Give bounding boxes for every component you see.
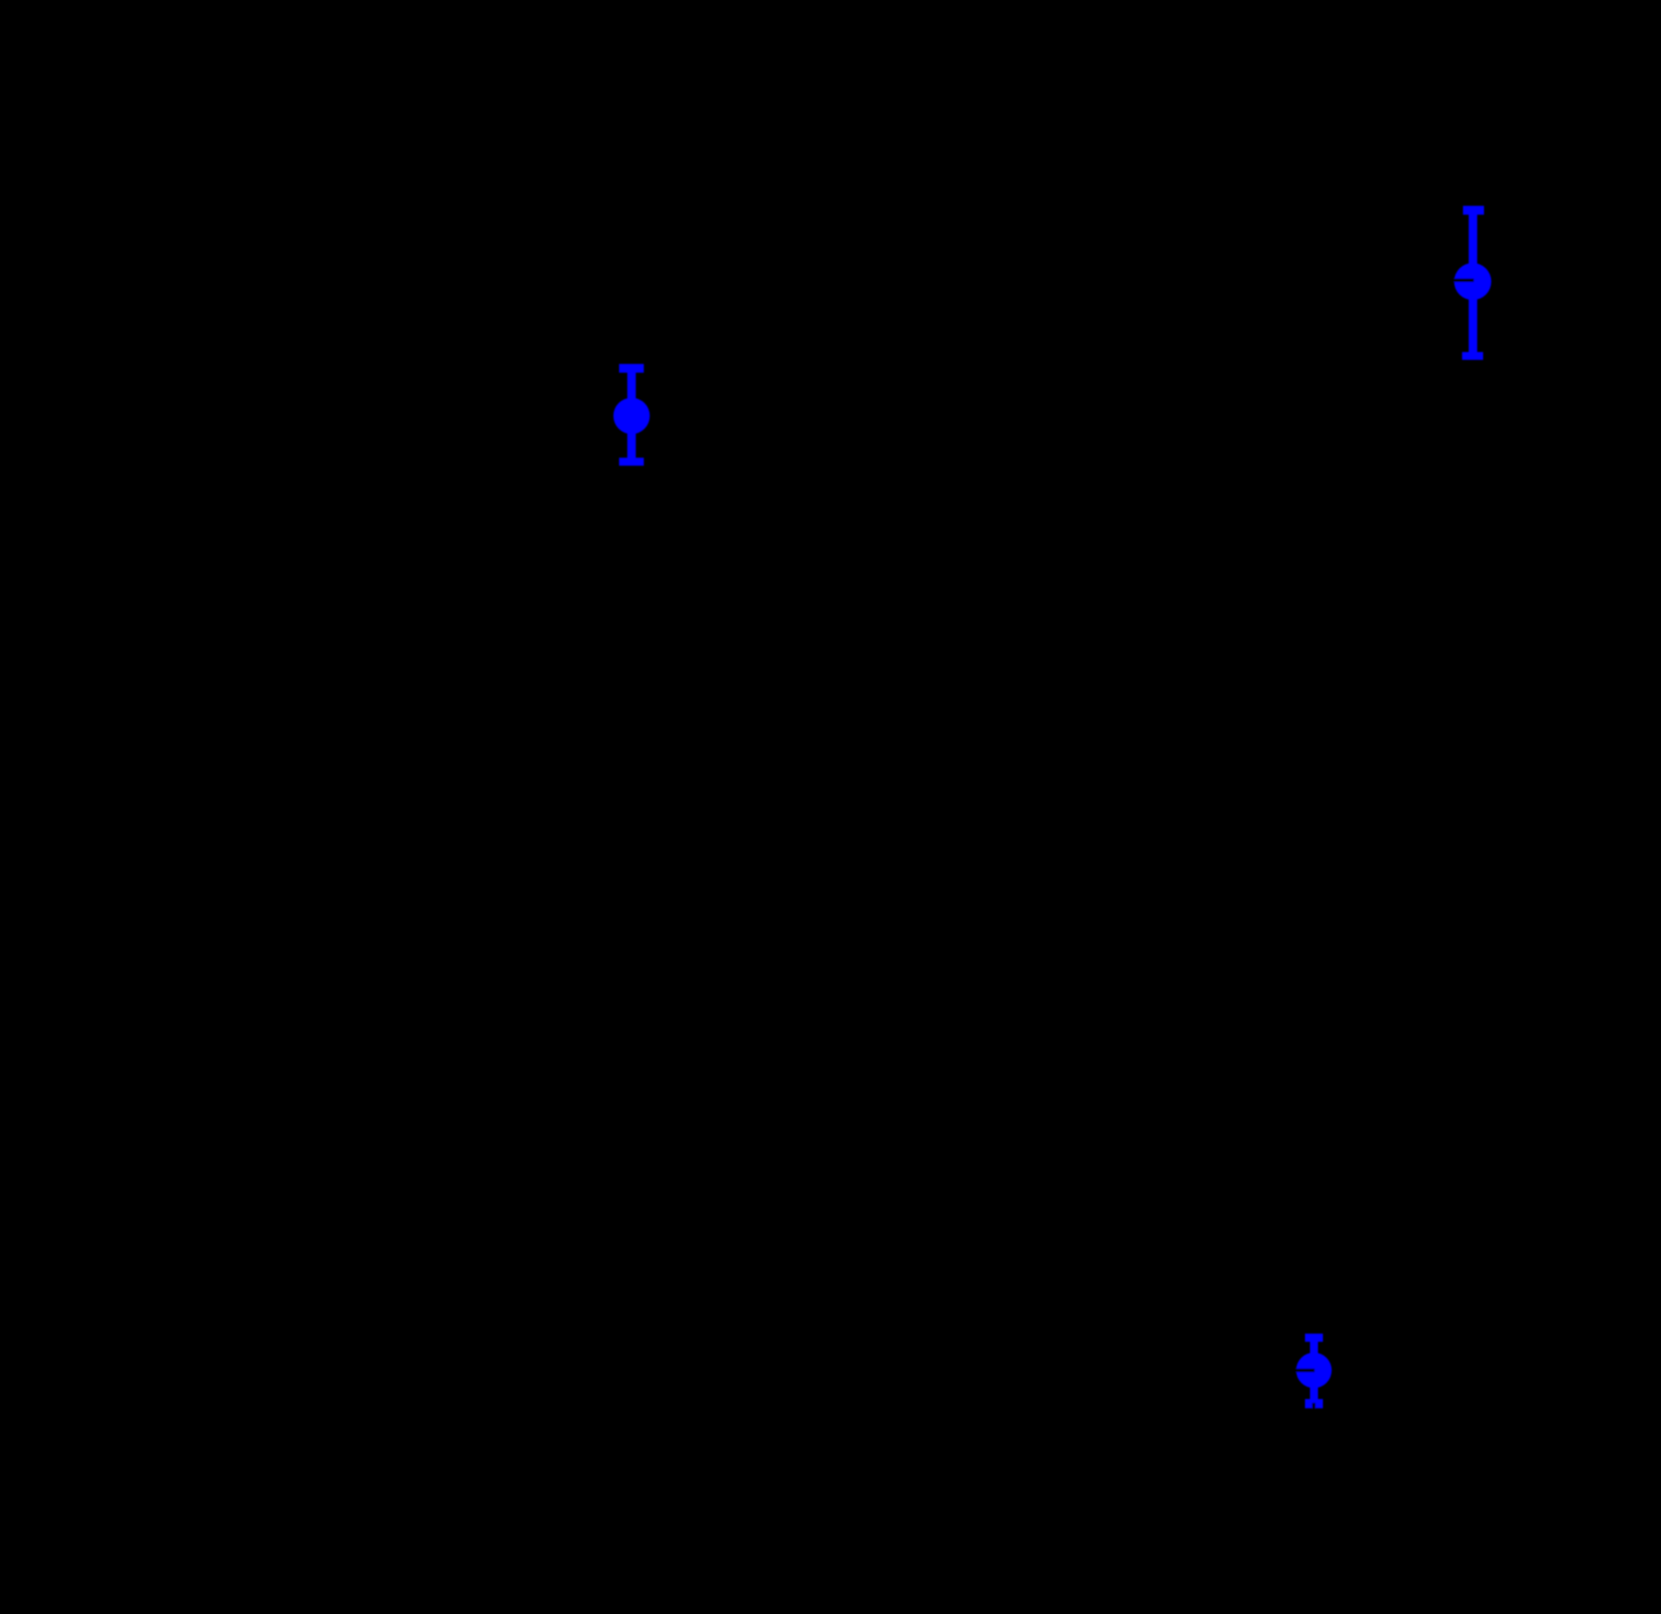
data point P2 bottom cap — [1462, 352, 1483, 360]
data point P1 error bar line — [627, 366, 636, 464]
data point P1 bottom cap — [619, 458, 644, 466]
data point P3 black dash overlay — [1293, 1369, 1315, 1372]
data point P2 black dash overlay — [1451, 279, 1474, 282]
data point P3 error bar line — [1310, 1338, 1318, 1405]
data point P3 circle marker — [1296, 1353, 1332, 1389]
data point P1 top cap — [619, 364, 644, 373]
data point P3 bottom cap — [1305, 1399, 1323, 1408]
data point P2 top cap — [1463, 206, 1484, 215]
data point P1 circle marker — [613, 398, 649, 434]
data point P3 black slit in bottom cap — [1312, 1403, 1315, 1409]
data point P2 circle marker — [1454, 263, 1491, 300]
data point P2 error bar line — [1469, 208, 1478, 358]
data point P3 top cap — [1305, 1334, 1323, 1342]
